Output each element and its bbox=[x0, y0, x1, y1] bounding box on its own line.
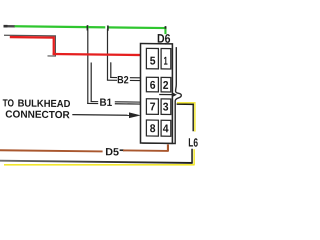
svg-text:2: 2 bbox=[163, 80, 169, 92]
wire B2 corner to double line bbox=[107, 80, 117, 81]
svg-text:D5: D5 bbox=[105, 146, 119, 158]
wire black from hop to L6 horizontal bbox=[177, 103, 194, 105]
pin 4 cell bbox=[161, 120, 171, 136]
junction tick 1 bbox=[87, 25, 89, 30]
wire black vertical below L6 bbox=[191, 149, 193, 164]
arrow out right side at pins 2-3 bbox=[159, 94, 173, 95]
svg-text:1: 1 bbox=[164, 56, 169, 68]
wire black vertical above L6 bbox=[193, 104, 194, 132]
wire black bottom horizontal bbox=[0, 160, 193, 164]
svg-text:6: 6 bbox=[150, 80, 156, 92]
wire B2 vertical from green line bbox=[107, 25, 108, 80]
svg-text:3: 3 bbox=[163, 102, 169, 114]
svg-text:D6: D6 bbox=[157, 32, 171, 46]
wire B1 double line to connector bbox=[115, 101, 141, 102]
svg-text:7: 7 bbox=[150, 101, 156, 113]
connector D6 drop shadow with wire hop bbox=[142, 47, 181, 144]
wire red upper horizontal bbox=[10, 36, 55, 39]
wire yellow horizontal above L6 bbox=[177, 102, 195, 103]
wire B2 double line to connector bbox=[130, 77, 141, 78]
svg-text:5: 5 bbox=[150, 55, 156, 67]
tick under D6 bbox=[165, 43, 166, 45]
svg-text:BULKHEAD: BULKHEAD bbox=[18, 99, 71, 111]
junction gap in green bbox=[105, 26, 107, 29]
pin 3 cell bbox=[161, 99, 171, 115]
wire red gray registration line bbox=[4, 35, 55, 37]
wire B1 corner to double line bbox=[87, 103, 98, 104]
wire brown from left bbox=[0, 149, 103, 152]
svg-text:8: 8 bbox=[150, 123, 156, 135]
pin 7 cell bbox=[146, 99, 158, 115]
svg-text:B2: B2 bbox=[117, 74, 129, 86]
wire brown to connector bottom bbox=[123, 149, 169, 151]
svg-text:TO: TO bbox=[3, 98, 14, 109]
svg-text:L6: L6 bbox=[188, 136, 198, 150]
pin 6 cell bbox=[146, 77, 158, 92]
connector D6 outer box bbox=[141, 43, 173, 143]
pin 1 cell bbox=[161, 49, 171, 70]
wire green corner down to D6 bbox=[164, 27, 166, 34]
wire brown black registration segment bbox=[120, 149, 125, 151]
wire red vertical step bbox=[53, 36, 55, 55]
wire red lower horizontal to pin 5 bbox=[53, 53, 145, 56]
pin 5 cell bbox=[146, 48, 158, 69]
wire yellow vertical above L6 bbox=[194, 102, 195, 132]
wire green horizontal bbox=[15, 25, 167, 29]
wire green gray end segment bbox=[4, 25, 16, 28]
wire brown vertical into pin 4 bbox=[167, 144, 169, 151]
svg-text:4: 4 bbox=[163, 123, 169, 135]
junction tick 2 bbox=[107, 25, 109, 30]
svg-text:CONNECTOR: CONNECTOR bbox=[5, 109, 70, 121]
arrow to connector left side bbox=[72, 114, 130, 116]
pin 2 cell bbox=[161, 77, 171, 92]
wire yellow bottom horizontal bbox=[4, 164, 194, 166]
wire yellow vertical below L6 bbox=[193, 149, 195, 165]
svg-text:B1: B1 bbox=[100, 97, 113, 109]
wire B1 vertical from green line bbox=[87, 25, 88, 104]
junction tick at green corner bbox=[165, 26, 167, 29]
pin 8 cell bbox=[146, 120, 158, 136]
wire B2 inner connector leg bbox=[110, 62, 111, 78]
wire B1 inner connector leg bbox=[91, 62, 92, 101]
